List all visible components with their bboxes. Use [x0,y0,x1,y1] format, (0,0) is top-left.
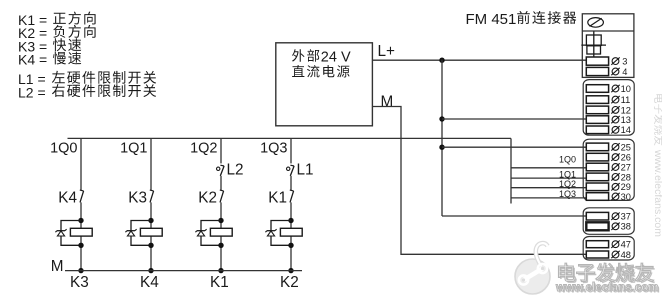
watermark text 电子发烧友 [560,265,655,284]
terminal 13 [586,116,608,124]
svg-text:14: 14 [621,125,631,135]
wire output rail 1Q [68,137,512,139]
node coil bottom [218,243,223,248]
svg-text:12: 12 [621,105,631,115]
svg-text:38: 38 [621,222,631,232]
svg-text:26: 26 [621,153,631,163]
terminal 11 [586,96,608,104]
svg-text:L2 =: L2 = [18,84,46,100]
svg-text:M: M [51,258,64,275]
wire branch 1Q2 upper [220,138,222,163]
svg-text:K1: K1 [210,274,229,291]
svg-text:11: 11 [621,95,631,105]
wire branch 1Q0 upper [80,138,82,190]
relay coil K1 [280,228,302,236]
wire M from supply [373,107,587,255]
svg-text:30: 30 [621,192,631,202]
svg-text:K3: K3 [128,189,147,206]
svg-text:K2: K2 [198,189,217,206]
connector box top [582,14,634,78]
wire to terminal 25 [442,146,587,148]
node coil bottom [288,243,293,248]
node L+ junction [439,58,444,63]
diode [57,230,65,232]
wire branch 1Q2 mid [220,176,222,190]
svg-text:13: 13 [621,115,631,125]
terminal group 25-30 [583,139,634,200]
svg-text:M: M [381,93,394,110]
svg-text:1Q0: 1Q0 [50,141,77,157]
watermark vertical right edge [652,94,662,237]
node bottom rail 1Q1 [148,268,153,273]
node junction to 13 [439,116,444,121]
svg-text:L2: L2 [227,162,244,179]
svg-text:FM 451: FM 451 [466,11,517,28]
svg-text:1Q1: 1Q1 [120,141,147,157]
wire branch 1Q3 upper [290,138,292,163]
diode [127,230,135,232]
wire 1Q3 to terminal 30 [511,197,587,199]
svg-text:K4 =: K4 = [18,52,47,68]
svg-text:www.elecfans.com: www.elecfans.com [652,149,662,237]
svg-text:48: 48 [621,250,631,260]
svg-text:1Q2: 1Q2 [190,141,217,157]
power supply box 24V DC [276,43,373,126]
terminal group 10-14 [583,80,634,136]
terminal 12 [586,106,608,114]
node coil top [78,218,83,223]
wire branch 1Q3 mid [290,176,292,190]
contact K3 [150,191,154,203]
terminal 48 [586,251,608,258]
svg-text:1Q3: 1Q3 [559,189,576,199]
svg-text:K1: K1 [268,189,287,206]
limit switch L1 [287,167,290,170]
terminal 26 [586,153,608,161]
relay coil K2 [210,228,232,236]
svg-text:1Q1: 1Q1 [559,170,576,180]
terminal 38 [586,222,608,230]
screw symbol [588,18,604,28]
svg-text:29: 29 [621,182,631,192]
node bottom rail 1Q2 [218,268,223,273]
wire 1Q1 to terminal 28 [511,177,587,179]
terminal 27 [586,163,608,171]
node junction to 25 [439,145,444,150]
svg-text:10: 10 [621,84,631,94]
svg-text:L1: L1 [297,162,314,179]
freewheeling diode branch [271,221,291,246]
svg-text:27: 27 [621,162,631,172]
contact K2 [220,191,224,203]
wire bottom rail M [65,270,302,272]
svg-text:K3: K3 [70,274,89,291]
node coil top [218,218,223,223]
label 外部24 V [292,49,319,62]
watermark logo [515,243,550,294]
wire branch lower [150,202,152,270]
terminal 3 [586,57,608,65]
contact K1 [290,191,294,203]
wire branch 1Q1 upper [150,138,152,190]
node coil bottom [148,243,153,248]
node bottom rail 1Q0 [78,268,83,273]
svg-text:28: 28 [621,172,631,182]
mounting plus symbol [586,35,601,45]
freewheeling diode branch [131,221,151,246]
svg-text:www.elecfans.com: www.elecfans.com [555,282,658,294]
diode [197,230,205,232]
svg-text:24 V: 24 V [321,49,351,65]
svg-text:1Q0: 1Q0 [559,154,576,164]
wire branch lower [290,202,292,270]
terminal 37 [586,212,608,220]
wire L+ horizontal to terminal 3 [373,59,587,61]
wire L+ vertical bus [441,60,443,217]
freewheeling diode branch [61,221,81,246]
relay coil K3 [140,228,162,236]
svg-text:37: 37 [621,212,631,222]
svg-text:1Q2: 1Q2 [559,179,576,189]
terminal 25 [586,143,608,151]
svg-text:1Q3: 1Q3 [260,141,287,157]
wire to terminal 13 [442,118,587,120]
node bottom rail 1Q3 [288,268,293,273]
wire branch lower [220,202,222,270]
terminal 47 [586,241,608,248]
relay coil K4 [70,228,92,236]
terminal 30 [586,193,608,201]
freewheeling diode branch [201,221,221,246]
wire branch lower [80,202,82,270]
svg-text:3: 3 [622,57,627,67]
terminal 10 [586,85,608,93]
wire 1Q0 to terminal 27 [511,167,587,169]
svg-text:L+: L+ [378,43,396,60]
svg-text:K4: K4 [140,274,159,291]
limit switch L2 [217,167,220,170]
svg-text:25: 25 [621,142,631,152]
terminal 14 [586,126,608,134]
wire to terminal 37 [442,215,587,217]
svg-text:K4: K4 [58,189,77,206]
node coil top [288,218,293,223]
node coil bottom [78,243,83,248]
svg-text:K2: K2 [280,274,299,291]
wire output bus vertical [510,138,512,203]
node coil top [148,218,153,223]
terminal 4 [586,67,608,75]
terminal 29 [586,183,608,191]
terminal group 37-38 [583,208,634,235]
wire 1Q2 to terminal 29 [511,187,587,189]
terminal group 47-48 [583,237,634,261]
contact K4 [80,191,84,203]
svg-text:4: 4 [622,67,627,77]
diode [267,230,275,232]
terminal 28 [586,173,608,181]
label 直流电源 [292,65,350,78]
svg-text:47: 47 [621,240,631,250]
